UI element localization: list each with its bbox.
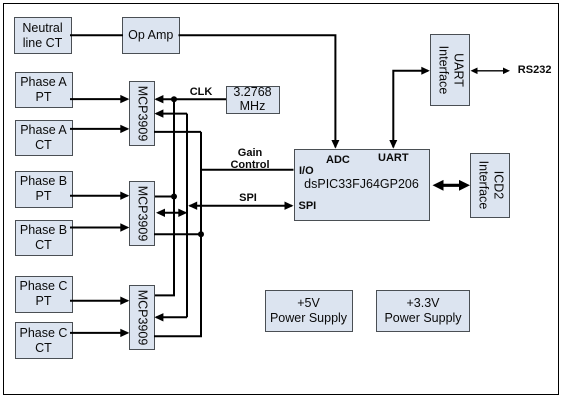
wire Phase A CT to MCP3909 U1 (70, 125, 129, 133)
wire Phase A PT to MCP3909 U1 (70, 95, 129, 103)
ADC U3 MCP3909 (phase C) (129, 285, 155, 350)
wire SPI stub to MCP3909 U2 (bidirectional) (156, 209, 187, 217)
wire CLK bus stub to MCP3909 U2 (155, 196, 174, 198)
wire data out U1 to gain bus (154, 131, 201, 133)
pin label ADC (326, 154, 350, 166)
block Phase C CT (15, 322, 73, 359)
wire Phase B CT to MCP3909 U2 (70, 223, 129, 231)
wire dsPIC to ICD2 Interface (bidirectional, thick) (433, 180, 471, 191)
wire SPI main line to dsPIC SPI pin (bidirectional) (188, 202, 293, 210)
pin label I/O (299, 165, 314, 177)
block UART Interface (430, 34, 470, 106)
pin label SPI (on dsPIC) (299, 200, 317, 212)
net label RS232 (518, 64, 552, 76)
wire dsPIC UART pin to UART Interface (389, 67, 430, 149)
net label Gain Control (220, 147, 280, 171)
wire Phase C CT to MCP3909 U3 (70, 329, 129, 337)
power supply +3.3V (376, 290, 470, 332)
wire gain bus vertical (154, 132, 201, 336)
pin label UART (378, 152, 409, 164)
wire CLK from crystal Y1 to MCP3909 U1 (154, 95, 226, 103)
wire Op Amp to dsPIC ADC pin (179, 35, 340, 148)
block Phase A CT (15, 120, 73, 157)
junction CLK bus at U2 (171, 194, 177, 200)
net label SPI (bus) (234, 192, 262, 204)
junction CLK bus at U1 (171, 96, 177, 102)
wire Phase C PT to MCP3909 U3 (70, 297, 129, 305)
power supply +5V (265, 290, 353, 332)
block Neutral line CT (14, 17, 72, 54)
net label CLK (188, 86, 214, 98)
junction gain bus at U2 (198, 231, 204, 237)
MCU U4 dsPIC33FJ64GP206 (294, 149, 430, 221)
block Op Amp (122, 17, 180, 54)
wire data out U2 to gain bus (154, 233, 201, 235)
block Phase A PT (15, 72, 73, 109)
ADC U1 MCP3909 (phase A) (129, 81, 155, 147)
wire UART Interface to RS232 (bidirectional) (471, 68, 511, 75)
wire Neutral CT to Op Amp (70, 34, 123, 36)
wire Phase B PT to MCP3909 U2 (70, 192, 129, 200)
wire SPI bus stub to MCP3909 U1 (154, 109, 187, 117)
block Phase B CT (15, 220, 73, 256)
wire Gain Control to dsPIC I/O pin (201, 169, 294, 171)
block Phase B PT (15, 171, 73, 209)
crystal Y1 3.2768 MHz (226, 86, 280, 115)
wire SPI bus stub to MCP3909 U3 (154, 313, 187, 321)
ADC U2 MCP3909 (phase B) (129, 181, 155, 246)
block ICD2 Interface (470, 153, 510, 218)
wire SPI bus vertical (186, 114, 188, 318)
wire CLK bus vertical (155, 99, 174, 295)
block Phase C PT (15, 276, 73, 313)
